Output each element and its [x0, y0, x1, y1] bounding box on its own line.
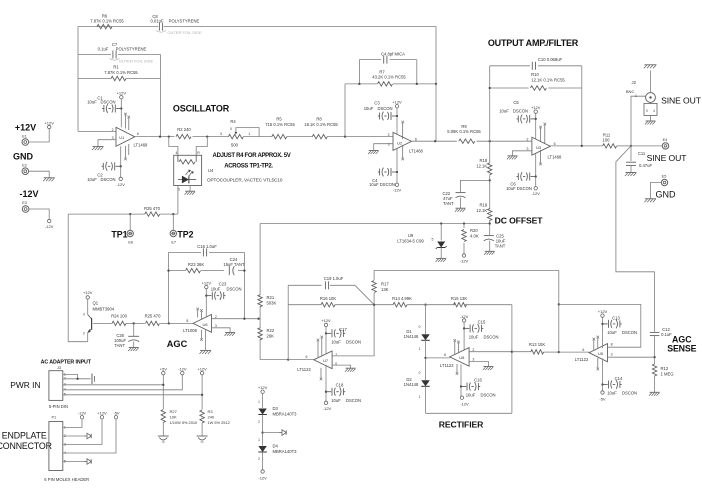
svg-text:U6: U6	[202, 322, 208, 327]
node opto left tap	[168, 135, 170, 137]
resistor R3	[200, 409, 230, 436]
diode D2	[404, 371, 430, 413]
svg-text:10uF: 10uF	[469, 334, 479, 339]
svg-text:R25 470: R25 470	[145, 314, 162, 319]
svg-text:-12V: -12V	[460, 314, 469, 319]
svg-text:6: 6	[306, 355, 308, 359]
node U8 V- / C16b	[460, 385, 462, 387]
svg-text:U1: U1	[119, 135, 125, 140]
svg-text:R3: R3	[208, 409, 214, 414]
U2 balance stubs	[401, 121, 404, 161]
svg-text:R1: R1	[113, 65, 119, 70]
svg-text:R15 13K: R15 13K	[451, 296, 468, 301]
node U2 V- / C4b	[396, 171, 398, 173]
svg-text:C14: C14	[615, 376, 623, 381]
node U6 V+ / C23	[205, 294, 207, 296]
power flag -12V at E3	[45, 219, 54, 229]
connector J3 5-pin DIN	[49, 366, 68, 409]
label PWR IN	[10, 380, 40, 390]
svg-text:+12V: +12V	[44, 121, 54, 126]
wire R7/C4 feedback frame	[345, 60, 436, 137]
wire R1 row	[78, 55, 161, 137]
node opto right tap	[206, 135, 208, 137]
capacitor C2	[87, 162, 120, 182]
section title AGC	[167, 339, 188, 349]
wire E2 to ground	[29, 171, 50, 178]
svg-text:10uF: 10uF	[607, 390, 617, 395]
power flag +5V	[160, 366, 168, 374]
label SINE OUT lower	[647, 153, 688, 163]
svg-text:4: 4	[653, 109, 655, 113]
svg-text:-12V: -12V	[258, 476, 267, 481]
wire P1 pin2 to ground arrow	[63, 433, 91, 439]
svg-text:7.87K 0.1% RC55: 7.87K 0.1% RC55	[104, 70, 138, 75]
svg-text:C11: C11	[638, 151, 646, 156]
svg-text:6: 6	[582, 348, 584, 352]
resistor R14	[392, 296, 412, 307]
svg-text:R21: R21	[267, 295, 275, 300]
svg-text:OPTOCOUPLER, VACTEC VTL5C10: OPTOCOUPLER, VACTEC VTL5C10	[207, 177, 283, 182]
svg-text:CONNECTOR: CONNECTOR	[0, 441, 52, 451]
svg-text:1: 1	[419, 347, 421, 351]
svg-text:-12V: -12V	[460, 258, 469, 263]
svg-text:R19: R19	[480, 202, 488, 207]
svg-text:0: 0	[230, 127, 232, 131]
resistor R13	[529, 342, 546, 354]
svg-text:1 MEG: 1 MEG	[661, 371, 674, 376]
capacitor C6	[506, 172, 536, 191]
node sine out	[630, 145, 632, 147]
wire left column to Q1 emitter	[68, 214, 88, 342]
node U9 tap	[440, 222, 442, 224]
power flag -5V at U5	[599, 391, 606, 402]
svg-text:TANT: TANT	[114, 343, 125, 348]
svg-text:5: 5	[432, 238, 434, 242]
wire P1 pin1	[63, 419, 82, 428]
svg-text:+12V: +12V	[117, 90, 127, 95]
wire J3 pin3 +5V rail	[63, 384, 164, 386]
wire J2 stem	[631, 96, 646, 146]
svg-text:C13: C13	[612, 315, 620, 320]
svg-text:0: 0	[83, 332, 85, 336]
svg-text:1W 5% 2512: 1W 5% 2512	[208, 420, 230, 425]
svg-text:U4: U4	[208, 168, 214, 173]
note ADJUST R4	[213, 153, 291, 170]
ground at U7	[345, 368, 356, 372]
node D3 D4 junction	[261, 431, 263, 433]
svg-text:U8: U8	[459, 355, 465, 360]
section title OSCILLATOR	[173, 104, 230, 114]
svg-text:LT1006: LT1006	[183, 328, 198, 333]
node R10 row left	[489, 87, 491, 89]
node U3 V+ / C5	[535, 118, 537, 120]
resistor R21	[258, 295, 277, 307]
power flag +12V	[44, 121, 54, 129]
svg-text:10uF DSCON: 10uF DSCON	[369, 182, 395, 187]
power flag -12V at U7	[323, 401, 332, 411]
resistor R1	[104, 65, 138, 81]
wire R5 to R6b	[287, 136, 313, 138]
svg-text:503K: 503K	[267, 301, 277, 306]
capacitor C10	[532, 57, 562, 70]
wire U2 V-	[396, 148, 398, 183]
svg-text:U7: U7	[323, 358, 329, 363]
wire R8 to U2	[327, 136, 393, 138]
svg-text:8: 8	[611, 343, 613, 347]
svg-text:MBRA140T3: MBRA140T3	[273, 411, 298, 416]
svg-text:ENDPLATE: ENDPLATE	[2, 431, 47, 441]
svg-text:0: 0	[419, 325, 421, 329]
power flag -12V at J3	[178, 366, 187, 374]
svg-text:POLYSTYRENE: POLYSTYRENE	[169, 18, 200, 23]
ground at R27	[158, 436, 169, 442]
wire BNC shield top	[650, 71, 652, 93]
ground at E2	[43, 178, 55, 182]
svg-text:SENSE: SENSE	[667, 344, 696, 354]
resistor R23	[186, 262, 205, 273]
svg-text:-12V: -12V	[460, 402, 469, 407]
ground at E5	[644, 199, 656, 203]
power flag +12V at J3	[197, 366, 207, 374]
svg-text:PWR IN: PWR IN	[10, 380, 40, 390]
capacitor C25 10uF TANT	[484, 224, 506, 252]
wire opto right drop	[196, 137, 207, 156]
section title OUTPUT AMP./FILTER	[488, 38, 579, 48]
svg-text:R2 240: R2 240	[177, 127, 191, 132]
svg-text:+12V: +12V	[83, 290, 93, 295]
optocoupler U4 box	[174, 151, 283, 186]
svg-text:C10 0.068uF: C10 0.068uF	[538, 57, 563, 62]
svg-text:0: 0	[419, 371, 421, 375]
ground at R12	[649, 392, 660, 396]
resistor R27	[161, 409, 198, 436]
net arrow at D3/D4	[263, 430, 287, 436]
op-amp U8 LT1122	[440, 348, 474, 368]
svg-text:R24 100: R24 100	[111, 314, 128, 319]
node C8 top loop at U2 out	[434, 84, 436, 142]
svg-text:OUTPUT AMP./FILTER: OUTPUT AMP./FILTER	[488, 38, 579, 48]
svg-text:10uF: 10uF	[331, 398, 341, 403]
wire R21 R22 column	[260, 224, 288, 360]
capacitor C4	[381, 51, 405, 63]
U1 balance pin stubs	[124, 113, 130, 161]
svg-text:E3: E3	[22, 201, 27, 205]
node U5 V- / C14	[601, 383, 603, 385]
wire rectifier input rail	[374, 269, 559, 271]
test point TP1	[111, 214, 133, 245]
svg-text:LT1468: LT1468	[409, 149, 424, 154]
svg-text:26K: 26K	[267, 334, 275, 339]
svg-text:8: 8	[186, 319, 188, 323]
svg-text:SINE OUT: SINE OUT	[647, 153, 688, 163]
svg-text:DSCON: DSCON	[622, 390, 637, 395]
wire U8 V-	[461, 364, 462, 396]
wire U7 V+	[325, 327, 327, 354]
svg-text:AGC: AGC	[167, 339, 188, 349]
svg-text:10uF: 10uF	[211, 286, 221, 291]
wire U2 V+	[396, 108, 398, 135]
node U1 V- / C2	[120, 165, 122, 167]
wire U3 pin3 to ground	[513, 151, 532, 156]
svg-text:6: 6	[444, 353, 446, 357]
svg-text:2: 2	[258, 457, 260, 461]
op-amp U6 LT1006	[183, 315, 217, 333]
resistor R17	[372, 270, 389, 304]
power flag +12V at U1	[117, 90, 127, 99]
svg-text:GND: GND	[13, 152, 34, 162]
svg-text:ACROSS TP1-TP2.: ACROSS TP1-TP2.	[224, 164, 273, 170]
wire Q1 base row	[93, 322, 193, 324]
power flag -12V at U8 top	[460, 314, 469, 322]
svg-text:3: 3	[527, 147, 529, 151]
wire rectifier bottom	[426, 412, 512, 414]
svg-text:2: 2	[215, 315, 217, 319]
svg-text:C17: C17	[339, 327, 347, 332]
voltage reference U9 LT1634	[397, 224, 446, 259]
node R7C4 left leg	[344, 135, 346, 137]
node AGC loop left leg	[168, 322, 170, 324]
node rectifier rail corner	[558, 270, 560, 353]
terminal E5 GND	[656, 174, 677, 199]
svg-text:D4: D4	[273, 443, 279, 448]
svg-text:100: 100	[603, 138, 611, 143]
svg-text:BNC: BNC	[626, 89, 635, 94]
terminal E3 -12V	[19, 189, 38, 212]
svg-text:7.87K 0.1% RC55: 7.87K 0.1% RC55	[90, 18, 124, 23]
test point TP2	[170, 214, 194, 245]
wire R4 to R5	[243, 136, 272, 138]
node mid rail at DC offset	[489, 222, 491, 224]
power flag -12V at U8 bottom	[460, 396, 469, 407]
wire U5 output	[608, 356, 655, 358]
wire DC offset column	[489, 141, 491, 223]
svg-text:LT1634-5 C99: LT1634-5 C99	[397, 238, 424, 243]
svg-text:LT1122: LT1122	[575, 357, 589, 362]
transistor Q1 MMBT3904	[83, 290, 115, 342]
svg-text:+12V: +12V	[321, 318, 331, 323]
svg-text:6 PIN MOLEX HEADER: 6 PIN MOLEX HEADER	[44, 477, 89, 482]
node rectifier input	[424, 340, 426, 380]
wire U8 pin3 to ground	[469, 361, 488, 366]
svg-text:R13 10K: R13 10K	[529, 342, 546, 347]
svg-text:-12V: -12V	[45, 224, 54, 229]
wire U7 output to node	[332, 305, 374, 356]
svg-text:1: 1	[635, 94, 637, 98]
svg-text:-5V: -5V	[599, 396, 606, 401]
svg-text:+12V: +12V	[258, 385, 268, 390]
resistor R11	[603, 132, 617, 148]
ground at U6 pin3	[225, 332, 236, 336]
svg-text:240: 240	[208, 414, 215, 419]
U7 balance stubs	[317, 336, 323, 381]
capacitor C3	[364, 101, 397, 121]
capacitor C17	[326, 327, 361, 344]
svg-text:E4: E4	[663, 138, 668, 142]
svg-text:C16 1.0uF: C16 1.0uF	[197, 244, 217, 249]
svg-text:2: 2	[335, 353, 337, 357]
op-amp U7 LT1122	[297, 351, 337, 372]
node U6 out at R21R22	[257, 318, 259, 320]
svg-text:ADJUST R4 FOR APPROX. 5V: ADJUST R4 FOR APPROX. 5V	[213, 153, 291, 159]
capacitor C12	[650, 272, 672, 357]
wire P1 pin5 to ground arrow	[63, 459, 91, 465]
svg-text:3: 3	[611, 352, 613, 356]
svg-text:R22: R22	[267, 328, 275, 333]
wire R25 row	[68, 213, 178, 215]
svg-text:1: 1	[258, 438, 260, 442]
power flag -5V at P1	[113, 410, 120, 419]
wire U1 output row	[135, 136, 229, 138]
svg-text:E6: E6	[128, 241, 133, 245]
svg-text:E5: E5	[662, 174, 667, 178]
photoresistor inside U4	[178, 155, 196, 164]
svg-text:DC OFFSET: DC OFFSET	[495, 216, 544, 226]
capacitor C1	[87, 95, 121, 113]
wire mid rail y223.5	[260, 223, 490, 225]
svg-text:MBRA140T3: MBRA140T3	[273, 449, 298, 454]
svg-text:GND: GND	[656, 189, 677, 199]
ground at U2 pin3	[368, 151, 379, 155]
svg-text:1: 1	[248, 132, 250, 136]
capacitor C24	[223, 257, 245, 275]
diode D3 MBRA140T3	[258, 393, 297, 432]
wire U3 V-	[535, 153, 537, 187]
svg-text:E1: E1	[22, 134, 27, 138]
svg-text:R27: R27	[170, 409, 178, 414]
svg-text:DSCON: DSCON	[100, 177, 115, 182]
section title DC OFFSET	[495, 216, 544, 226]
wire BNC shell to ground	[650, 115, 652, 121]
resistor R24	[111, 314, 128, 326]
terminal E4	[662, 138, 668, 149]
svg-text:E2: E2	[22, 163, 27, 167]
ground at U6 V-	[200, 350, 212, 354]
svg-text:0: 0	[83, 313, 85, 317]
svg-text:U2: U2	[397, 140, 403, 145]
label SINE OUT upper	[661, 95, 702, 105]
svg-text:R23 36K: R23 36K	[188, 262, 205, 267]
capacitor C15	[464, 319, 498, 339]
wire U1 inverting input	[78, 130, 116, 132]
power flag -12V at R20	[460, 254, 469, 264]
wire U6 pin3 to ground	[212, 328, 231, 333]
capacitor C11	[626, 146, 652, 173]
svg-text:1/10W 5% 2010: 1/10W 5% 2010	[170, 420, 199, 425]
ground at C25	[484, 251, 495, 255]
svg-text:C16: C16	[474, 377, 482, 382]
power flag +12V at D3	[258, 385, 268, 394]
svg-text:1N4148: 1N4148	[404, 382, 419, 387]
svg-text:+12V: +12V	[197, 366, 207, 371]
capacitor C26	[114, 323, 139, 348]
node U6 out / loop right leg	[243, 318, 245, 320]
svg-text:R20: R20	[470, 228, 478, 233]
resistor R7	[372, 69, 406, 87]
svg-text:DSCON: DSCON	[226, 286, 241, 291]
svg-text:500: 500	[231, 143, 239, 148]
power flag +12V at U7	[321, 318, 331, 326]
node R20 tap	[463, 222, 465, 224]
U5 balance stubs	[593, 336, 600, 371]
wire J3 pin1 pin2 to ground	[63, 374, 95, 385]
connector J2 BNC	[626, 80, 657, 115]
svg-text:LT1468: LT1468	[134, 143, 149, 148]
node R16/R14 junction	[373, 304, 375, 306]
svg-text:LT1468: LT1468	[548, 154, 563, 159]
svg-text:OUTER FOIL SIDE: OUTER FOIL SIDE	[167, 30, 202, 35]
svg-text:10uF: 10uF	[499, 109, 509, 114]
wire U1 V+ rail	[120, 99, 122, 127]
svg-text:POLYSTYRENE: POLYSTYRENE	[116, 46, 147, 51]
capacitor C16 1.0uF	[197, 244, 217, 256]
wire rectifier right leg	[511, 305, 513, 414]
node U2 V+ / C3	[396, 115, 398, 117]
node U5 V+ / C13	[601, 323, 603, 325]
node R7 right	[416, 83, 418, 85]
svg-text:C15: C15	[478, 319, 486, 324]
svg-text:DSCON: DSCON	[377, 106, 392, 111]
svg-text:0.1uF: 0.1uF	[661, 332, 672, 337]
connector P1	[44, 416, 89, 483]
svg-text:OSCILLATOR: OSCILLATOR	[173, 104, 230, 114]
label ENDPLATE CONNECTOR	[0, 431, 52, 451]
svg-text:5-PIN DIN: 5-PIN DIN	[49, 404, 68, 409]
svg-text:SINE OUT: SINE OUT	[661, 95, 702, 105]
ground at U1 pin3	[92, 147, 104, 151]
capacitor C13	[603, 315, 638, 334]
resistor R8 18.1K	[304, 117, 338, 139]
svg-text:+12V: +12V	[15, 123, 36, 133]
capacitor C18	[326, 382, 361, 403]
svg-text:R16 10K: R16 10K	[320, 296, 337, 301]
wire C19/R16 frame	[288, 285, 393, 359]
label AC ADAPTER INPUT	[41, 359, 92, 365]
svg-text:13K: 13K	[381, 287, 389, 292]
svg-text:10uF: 10uF	[331, 340, 341, 345]
chassis ground above BNC	[644, 65, 657, 69]
svg-text:0: 0	[646, 109, 648, 113]
section title RECTIFIER	[439, 420, 484, 430]
U3 balance stubs	[539, 123, 546, 166]
capacitor C22	[443, 180, 490, 208]
resistor R16	[320, 296, 337, 307]
wire U7 pin0 to ground	[332, 365, 351, 368]
terminal E2 GND	[13, 152, 34, 175]
capacitor C4 decoupling	[369, 168, 397, 188]
svg-text:R14 4.99K: R14 4.99K	[392, 296, 412, 301]
power flag -12V at D4	[258, 470, 267, 481]
ground at C22	[455, 208, 466, 212]
wire C10/R10 frame	[490, 66, 582, 146]
ground at U8 pin3	[483, 367, 494, 371]
svg-text:R17: R17	[381, 282, 389, 287]
capacitor C8	[150, 14, 202, 35]
svg-text:DSCON: DSCON	[483, 334, 498, 339]
wire U4 pin to R25 row	[177, 186, 179, 215]
node oscillator loop right leg	[159, 135, 161, 137]
svg-text:4.0K: 4.0K	[470, 233, 479, 238]
svg-text:10uF: 10uF	[364, 106, 374, 111]
wire U1 noninverting input to ground	[98, 140, 116, 147]
wire U5 feedback frame	[559, 304, 641, 347]
svg-text:J2: J2	[632, 80, 637, 85]
svg-text:U3: U3	[536, 145, 542, 150]
svg-text:R12: R12	[661, 366, 669, 371]
svg-text:+12V: +12V	[392, 100, 402, 105]
potentiometer R4	[220, 119, 259, 147]
svg-text:0.01uF: 0.01uF	[150, 18, 163, 23]
wire U5 V+	[602, 317, 604, 348]
